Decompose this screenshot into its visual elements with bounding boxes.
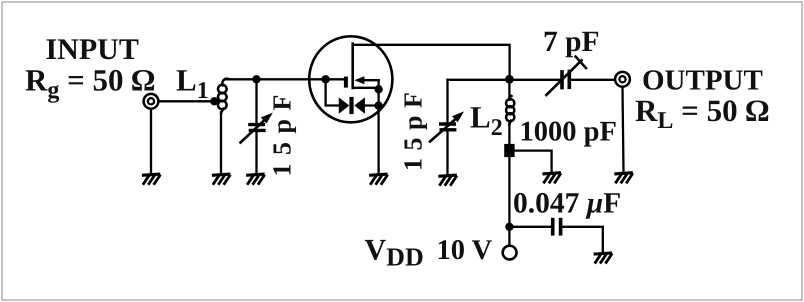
wire drain top rail [353,45,510,80]
wire C1 branch upper [255,79,257,122]
input connector J1 [144,94,159,109]
wire output rail right part [571,79,613,81]
node dot source-diode [374,101,382,109]
transistor Q1 envelope circle [309,36,392,122]
wire C1 branch lower to ground [255,132,257,175]
node dot source-bulk [374,85,382,93]
VDD terminal circle [503,246,517,260]
svg-text:10 V: 10 V [437,235,493,266]
output connector J2 [615,72,630,87]
wire diodes to source line [365,104,379,106]
capacitor C4 1000pF feedthrough body [504,144,514,157]
ground (L1) [213,174,229,183]
wire input to L1 tap [160,100,215,102]
wire output rail left part [448,79,561,81]
ground (C2) [440,175,456,184]
svg-text:0.047 μF: 0.047 μF [513,188,621,220]
inductor L2 [506,96,514,125]
wire C2 branch top [446,80,448,122]
wire L1 to ground [220,113,222,175]
node dot VDD junction [505,223,513,231]
wire drain junction down to L2 [508,79,510,99]
svg-text:15pF: 15pF [268,86,297,176]
wire source down to ground [377,80,379,174]
svg-text:7 pF: 7 pF [543,26,600,58]
wire C5 to ground [562,227,603,253]
wire feedthrough down to VDD node [508,157,510,245]
ground (input) [143,174,159,183]
ground (C5) [595,253,611,262]
svg-text:OUTPUT: OUTPUT [642,65,763,97]
node dot drain junction [505,75,514,84]
inductor L1 [218,79,228,114]
wire gate rail L1 to Q1 gate [226,78,345,80]
wire gate to protection diodes [326,79,339,105]
ground (C1) [248,174,264,183]
Q1 gate bar [344,77,348,88]
ground (C4) [544,173,560,182]
svg-text:Rg = 50 Ω: Rg = 50 Ω [25,63,155,104]
capacitor C5 0.047uF plates [553,220,561,234]
Q1 source lead with arrow [354,76,378,84]
node dot C1 tap [252,75,260,83]
wire output connector to ground [623,88,624,173]
node dot gate-diode junction [321,75,329,83]
svg-text:INPUT: INPUT [46,33,139,66]
wire L2 to feedthrough [508,124,510,146]
Q1 channel bar [351,44,354,88]
capacitor C2 15pF variable [430,111,464,141]
ground (J2) [616,173,632,182]
protection diodes D1 D2 back-to-back [339,97,365,114]
svg-text:15pF: 15pF [399,85,428,171]
capacitor C1 15pF variable [241,113,273,143]
wire C2 branch to ground [446,131,448,175]
svg-text:RL = 50 Ω: RL = 50 Ω [635,93,769,134]
svg-text:1000 pF: 1000 pF [520,117,617,148]
wire input connector to ground [150,110,152,175]
wire C4 to ground [515,151,552,173]
Q1 bulk lead [353,87,379,89]
node tap dot on L1 [210,97,218,105]
ground (Q1 source) [371,174,387,183]
wire VDD node to C5 [509,226,551,228]
capacitor C3 7pF trimmer plates [546,57,586,95]
